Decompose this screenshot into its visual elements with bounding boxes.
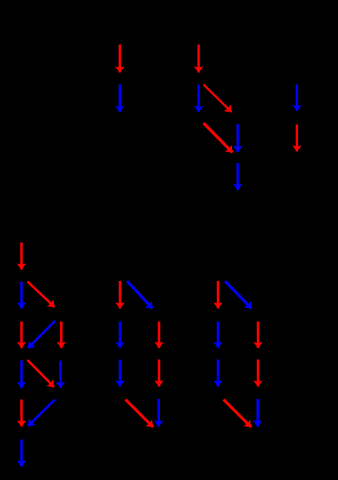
wire: blue 2-arrow, node (297,78) to node (297,118): [296, 85, 298, 112]
wire: red 1-arrow diagonal, node D1 to E2: [28, 360, 55, 387]
wire: blue 2-arrow, node (199,80) to node (199,120): [197, 85, 199, 113]
wire: red 1-arrow, node R-R2 to R-R3: [257, 322, 260, 349]
wire: red 1-arrow, node C1 to D1: [20, 322, 23, 349]
wire: blue 2-arrow, node R-L3 to R-L4: [217, 360, 220, 387]
wire: blue 2-arrow, node R-L2 to R-L3: [217, 322, 220, 349]
wire: blue 2-arrow, node D1 to E1: [20, 361, 23, 389]
wire: blue 2-arrow, node M-R4 to M-bottom: [157, 399, 160, 427]
wire: blue 2-arrow, node (238,118) to node (238,160): [236, 124, 238, 152]
wire: red 1-arrow diagonal, node M-L4 to M-bottom: [126, 400, 154, 428]
wire: red 1-arrow, node R-R3 to R-R4: [257, 360, 260, 387]
wire: red 1-arrow, node (120,38) to node (120,80): [119, 45, 121, 73]
wire: red 1-arrow, node M-R3 to M-R4: [158, 360, 161, 387]
wire: blue 2-arrow diagonal, node R-top to R-R2: [225, 281, 252, 309]
wire: blue 2-arrow, node M-L2 to M-L3: [119, 322, 122, 349]
wire: red 1-arrow, node (199,38) to node (199,80): [197, 45, 199, 73]
wire: red 1-arrow, node (297,118) to node (297,158): [296, 125, 298, 152]
wire: red 1-arrow, node M-R2 to M-R3: [158, 322, 161, 349]
wire: blue 2-arrow, node M-L3 to M-L4: [119, 360, 122, 387]
wire: red 1-arrow thick diagonal, node (199,118) to node (235,160): [204, 123, 233, 153]
wire: red 1-arrow diagonal, node R-L4 to R-bottom: [224, 400, 252, 428]
wire: red 1-arrow, node M-top to M-L2: [119, 281, 122, 309]
wire: red 1-arrow diagonal, node (199,80) to node (238,120): [204, 85, 232, 113]
wire: blue 2-arrow diagonal, node C2 to D1: [28, 321, 55, 348]
wire: red 1-arrow, node C2 to D2: [60, 322, 63, 349]
wire: red 1-arrow, node R-top to R-L2: [217, 281, 220, 309]
wire: blue 2-arrow, node R-R4 to R-bottom: [256, 399, 259, 427]
wire: blue 2-arrow, node D2 to E2: [59, 361, 62, 389]
wire: blue 2-arrow diagonal, node E2 to F1: [28, 400, 55, 427]
wire: blue 2-arrow, node (238,158) to node (238,198): [236, 163, 238, 190]
wire: blue 2-arrow, node (120,80) to node (120,120): [119, 85, 121, 113]
wire: blue 2-arrow diagonal, node M-top to M-R2: [127, 281, 153, 309]
wire: blue 2-arrow, node B1 to C1: [20, 282, 23, 309]
wire: red 1-arrow, node E1 to F1: [20, 400, 23, 427]
wire: blue 2-arrow, node F1 to G1: [20, 440, 23, 467]
wire: red 1-arrow diagonal, node B1 to C2: [28, 282, 55, 308]
wire: red 1-arrow, node A1 to B1: [20, 243, 23, 270]
